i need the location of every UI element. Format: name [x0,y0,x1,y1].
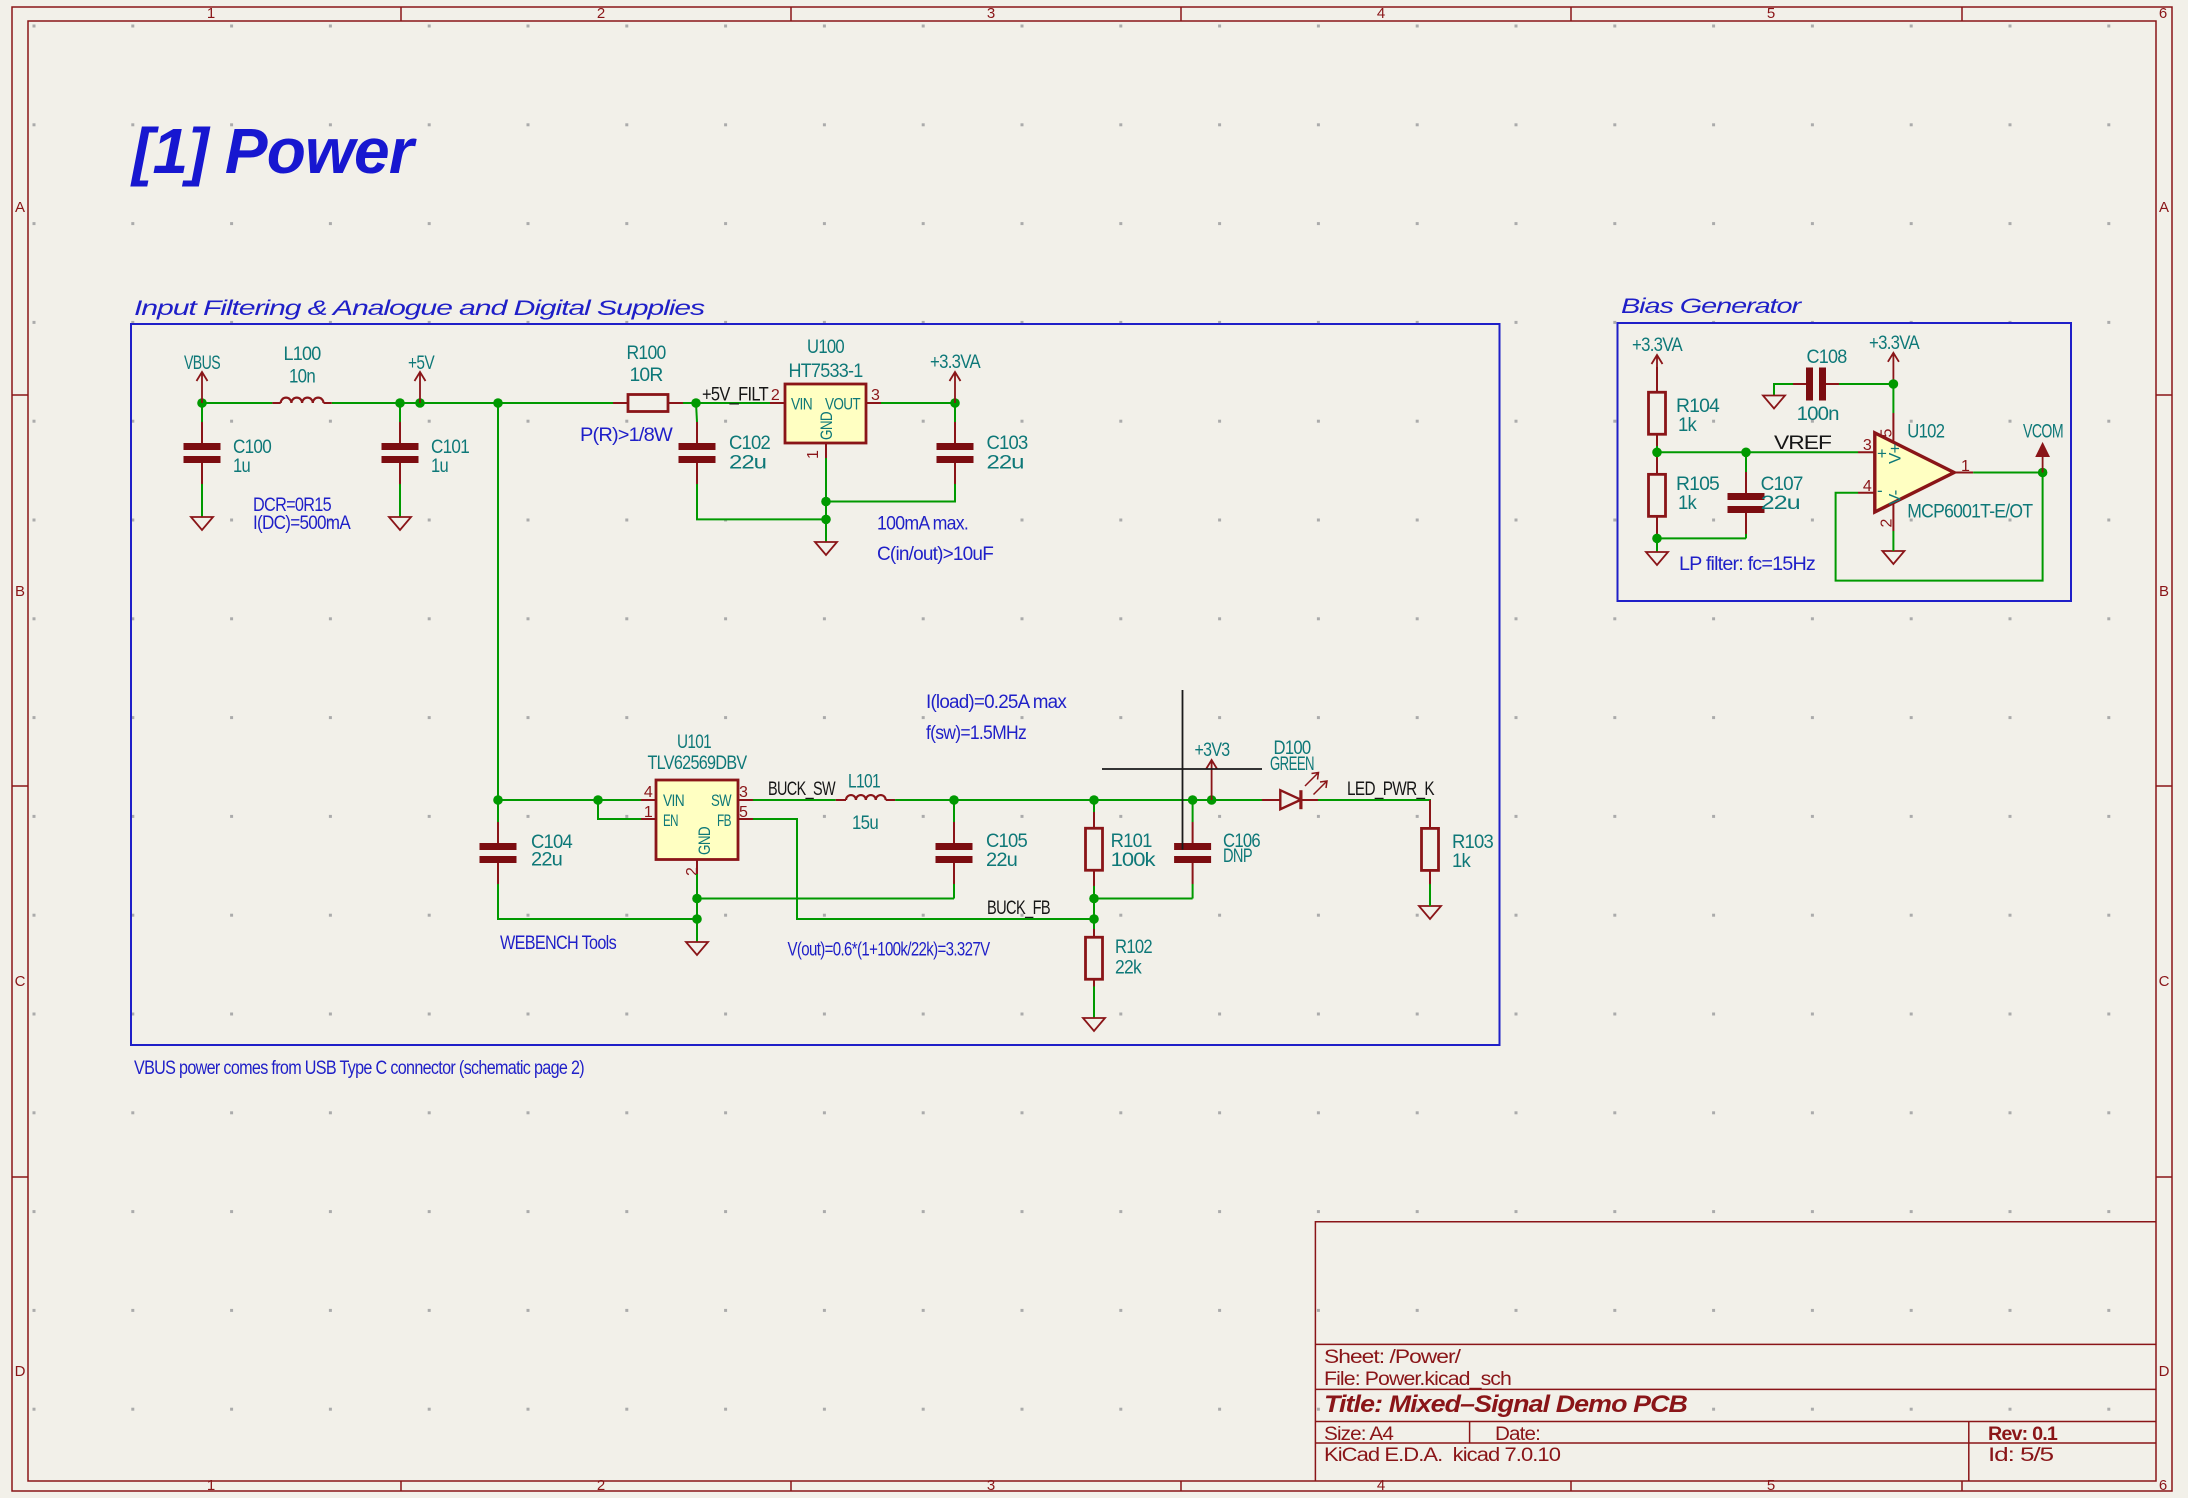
svg-text:L100: L100 [284,344,321,365]
ground left of C108 [1763,396,1785,409]
section box Input Filtering [131,324,1500,1045]
capacitor C100 1u [184,403,272,517]
svg-text:VBUS: VBUS [184,353,220,374]
svg-text:C102: C102 [729,433,770,454]
capacitor C108 100n [1774,347,1893,425]
svg-text:22u: 22u [986,850,1017,871]
svg-text:U101: U101 [677,732,711,753]
svg-text:5: 5 [1879,429,1896,438]
power flag VBUS [184,353,220,403]
wire R105/C107 bottom [1657,537,1746,539]
svg-text:+3.3VA: +3.3VA [1869,333,1920,354]
svg-text:GREEN: GREEN [1270,754,1314,775]
wire VREF [1657,451,1858,453]
resistor R100 10R [613,343,683,412]
ground below U101 [686,942,708,955]
svg-text:1k: 1k [1452,851,1471,872]
svg-text:BUCK_SW: BUCK_SW [768,779,836,800]
svg-text:+3.3VA: +3.3VA [930,352,981,373]
svg-text:U100: U100 [807,337,844,358]
svg-text:3: 3 [1863,437,1872,454]
svg-text:A: A [15,199,25,216]
wire R101 bottom to C106 bottom [1094,898,1193,900]
svg-text:D: D [2159,1363,2170,1380]
svg-text:1u: 1u [233,456,250,477]
capacitor C107 22u [1728,452,1803,538]
op-amp U102 MCP6001T-E/OT [1858,384,2033,531]
svg-text:1: 1 [207,5,215,22]
ground below R103 [1419,906,1441,919]
svg-text:WEBENCH Tools: WEBENCH Tools [500,933,616,954]
svg-text:D: D [15,1363,26,1380]
svg-text:100mA max.: 100mA max. [877,514,968,535]
power flag VCOM [2023,421,2063,472]
wire +5V to U101 VIN/EN [498,799,641,801]
svg-text:LP filter: fc=15Hz: LP filter: fc=15Hz [1679,554,1815,575]
wire L101 to D100 (+3V3 rail) [895,799,1262,801]
svg-text:+3.3VA: +3.3VA [1632,335,1683,356]
svg-text:+5V: +5V [408,353,435,374]
wire R101 to BUCK_FB node [1093,899,1095,920]
svg-text:B: B [15,583,25,600]
svg-text:LED_PWR_K: LED_PWR_K [1347,779,1435,800]
wire U101 GND net [696,874,698,942]
svg-text:+5V_FILT: +5V_FILT [702,385,769,406]
svg-text:2: 2 [771,387,780,404]
capacitor C104 22u [480,800,698,919]
wire GND to C105 bottom [697,898,954,900]
junction dots U101 input [493,795,603,805]
svg-text:4: 4 [1863,478,1872,495]
power flag +3V3 [1195,740,1230,800]
capacitor C101 1u [382,403,470,517]
svg-text:2: 2 [597,1477,605,1494]
svg-text:Rev: 0.1: Rev: 0.1 [1988,1424,2058,1445]
svg-text:3: 3 [739,784,748,801]
section box Bias Generator [1618,323,2072,601]
resistor R104 1k [1649,367,1721,452]
svg-text:C: C [15,973,26,990]
svg-text:R103: R103 [1452,832,1493,853]
wire U100 VOUT to +3.3VA [881,402,955,404]
svg-text:22k: 22k [1115,958,1142,979]
wire feedback loop [1836,473,2043,581]
svg-text:22u: 22u [987,453,1024,474]
svg-text:3: 3 [871,387,880,404]
junction dots U100 GND [821,497,831,525]
svg-text:1u: 1u [431,456,448,477]
regulator U100 HT7533-1 [770,337,881,459]
svg-text:MCP6001T-E/OT: MCP6001T-E/OT [1907,502,2033,523]
svg-text:GND: GND [695,827,714,855]
svg-text:C100: C100 [233,437,271,458]
LED D100 GREEN [1262,738,1327,809]
power flag +3.3VA (R104) [1632,335,1683,393]
svg-text:C: C [2159,973,2170,990]
svg-text:VIN: VIN [663,791,684,810]
svg-text:VREF: VREF [1774,433,1831,454]
wire LED to R103 [1318,800,1430,828]
junction dots +5V rail [197,398,960,408]
svg-text:5: 5 [1767,1477,1775,1494]
svg-text:1: 1 [644,804,653,821]
svg-text:TLV62569DBV: TLV62569DBV [648,753,748,774]
svg-text:3: 3 [987,1477,995,1494]
svg-text:EN: EN [663,811,678,830]
junction dot VCOM [2038,468,2048,478]
wire FB to BUCK_FB [753,819,1094,919]
svg-text:1: 1 [805,450,822,459]
capacitor C105 22u [936,800,1028,899]
svg-text:6: 6 [2159,5,2167,22]
svg-text:4: 4 [1377,5,1385,22]
svg-text:FB: FB [717,811,731,830]
wire L100 to R100 (+5V rail) [332,402,613,404]
svg-text:[1] Power: [1] Power [130,115,417,187]
svg-text:R104: R104 [1676,396,1720,417]
svg-text:+3V3: +3V3 [1195,740,1230,761]
svg-text:10R: 10R [630,365,663,386]
capacitor C103 22u [826,403,1028,502]
ground below U102 [1882,551,1904,564]
svg-text:22u: 22u [729,453,766,474]
capacitor C106 DNP [1174,800,1260,899]
svg-text:R102: R102 [1115,937,1152,958]
ground below R102 [1083,1018,1105,1031]
svg-text:Date:: Date: [1495,1424,1540,1445]
wire SW to L101 [753,799,836,801]
svg-text:5: 5 [1767,5,1775,22]
wire U102 output to VCOM [1973,472,2042,474]
svg-text:100k: 100k [1111,850,1156,871]
svg-text:5: 5 [739,804,748,821]
resistor R105 1k [1649,452,1720,538]
svg-text:GND: GND [817,412,836,440]
wire U100 GND net [825,458,827,542]
svg-text:I(DC)=500mA: I(DC)=500mA [253,513,351,534]
resistor R101 100k [1086,800,1157,899]
svg-text:-: - [1877,481,1882,500]
ground below C100 [191,517,213,530]
junction dots VREF / C107 [1652,448,1751,544]
resistor R103 1k [1422,800,1494,899]
svg-text:Size: A4: Size: A4 [1324,1424,1394,1445]
junction dots U101 GND [692,894,702,924]
svg-text:4: 4 [644,784,653,801]
regulator U101 TLV62569DBV [641,732,753,876]
svg-text:6: 6 [2159,1477,2167,1494]
wire R105 bottom / ground [1656,538,1658,552]
capacitor C102 22u [679,403,827,519]
svg-text:f(sw)=1.5MHz: f(sw)=1.5MHz [926,723,1026,744]
svg-text:22u: 22u [531,850,562,871]
svg-text:C(in/out)>10uF: C(in/out)>10uF [877,544,993,565]
svg-text:15u: 15u [852,813,878,834]
inductor L101 15u [836,772,895,835]
svg-text:I(load)=0.25A max: I(load)=0.25A max [926,692,1067,713]
svg-text:C105: C105 [986,831,1027,852]
svg-text:10n: 10n [289,367,315,388]
svg-text:2: 2 [684,867,701,876]
svg-text:4: 4 [1377,1477,1385,1494]
svg-text:1: 1 [1961,458,1970,475]
svg-text:File: Power.kicad_sch: File: Power.kicad_sch [1324,1369,1511,1390]
svg-text:Id: 5/5: Id: 5/5 [1988,1445,2053,1466]
svg-text:R105: R105 [1676,474,1719,495]
title block [1315,1222,2156,1481]
svg-text:C108: C108 [1807,347,1847,368]
svg-text:R101: R101 [1111,831,1152,852]
junction dots +3V3 rail [949,795,1216,805]
svg-text:1k: 1k [1678,493,1697,514]
svg-text:VOUT: VOUT [825,395,860,414]
svg-text:1k: 1k [1678,415,1697,436]
svg-text:Title: Mixed–Signal Demo PCB: Title: Mixed–Signal Demo PCB [1324,1391,1688,1418]
cursor crosshair lines [1102,690,1262,850]
svg-text:Bias Generator: Bias Generator [1621,295,1802,318]
inductor L100 10n [272,344,331,403]
svg-text:V+: V+ [1886,443,1905,464]
svg-text:C107: C107 [1761,474,1803,495]
svg-text:1: 1 [207,1477,215,1494]
svg-text:VBUS power comes from USB Type: VBUS power comes from USB Type C connect… [134,1058,584,1079]
svg-text:A: A [2159,199,2169,216]
power flag +3.3VA (U102 V+) [1869,333,1920,384]
svg-text:SW: SW [711,791,732,810]
svg-text:KiCad E.D.A. kicad 7.0.10: KiCad E.D.A. kicad 7.0.10 [1324,1445,1560,1466]
ground below R105 [1646,552,1668,565]
power flag +3.3VA (U100 output) [930,352,981,403]
svg-text:Sheet: /Power/: Sheet: /Power/ [1324,1347,1462,1368]
svg-text:BUCK_FB: BUCK_FB [987,898,1050,919]
svg-text:22u: 22u [1761,493,1800,514]
wire R100 to U100 VIN (+5V_FILT) [683,402,770,404]
junction dots BUCK_FB node [1089,894,1099,924]
wire +5V rail to U101 VIN (vertical drop) [497,403,499,800]
svg-text:V-: V- [1886,490,1905,505]
svg-text:100n: 100n [1797,404,1839,425]
resistor R102 22k [1086,919,1153,1018]
wire VBUS to L100 [202,402,272,404]
svg-text:2: 2 [597,5,605,22]
svg-text:B: B [2159,583,2169,600]
svg-text:L101: L101 [848,772,880,793]
junction dot C108/V+ [1889,379,1899,389]
ground below U100 [815,542,837,555]
svg-text:R100: R100 [627,343,666,364]
svg-text:C103: C103 [987,433,1028,454]
svg-text:Input Filtering & Analogue and: Input Filtering & Analogue and Digital S… [134,297,706,320]
svg-text:C101: C101 [431,437,469,458]
svg-text:VCOM: VCOM [2023,421,2063,442]
svg-text:VIN: VIN [791,395,812,414]
svg-text:HT7533-1: HT7533-1 [789,361,863,382]
svg-text:2: 2 [1879,519,1896,528]
svg-text:3: 3 [987,5,995,22]
svg-text:U102: U102 [1907,421,1944,442]
power flag +5V [408,353,435,403]
svg-text:V(out)=0.6*(1+100k/22k)=3.327V: V(out)=0.6*(1+100k/22k)=3.327V [788,940,991,961]
svg-text:P(R)>1/8W: P(R)>1/8W [580,425,673,446]
ground below C101 [389,517,411,530]
svg-text:DNP: DNP [1223,846,1252,867]
